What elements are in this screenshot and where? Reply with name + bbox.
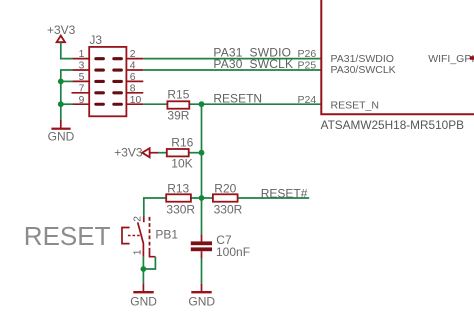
svg-text:+3V3: +3V3	[114, 146, 143, 160]
wire net PA31_SWDIO	[143, 58, 321, 60]
svg-text:R15: R15	[167, 88, 189, 102]
resistor R15	[167, 88, 189, 123]
ground GND (under C7)	[188, 284, 215, 308]
PB1 lower pin	[142, 251, 144, 257]
wire R13 row left	[144, 198, 166, 217]
svg-text:PB1: PB1	[155, 228, 178, 242]
PB1 arm	[138, 222, 144, 251]
wire net RESETN (J3 pin10 to IC)	[143, 103, 167, 105]
svg-text:P25: P25	[298, 60, 317, 72]
push button PB1	[122, 216, 178, 257]
PB1 top pin	[143, 216, 145, 222]
svg-text:RESET#: RESET#	[261, 187, 308, 201]
junction PB1 node	[141, 266, 147, 272]
svg-text:R20: R20	[214, 181, 236, 195]
wire C7 to GND	[201, 258, 203, 284]
PB1 bracket dashed link	[128, 235, 140, 237]
ground GND (under PB1)	[130, 284, 157, 309]
J3 pads	[94, 57, 123, 106]
wire R16 to bus	[189, 152, 202, 154]
svg-text:330R: 330R	[214, 202, 243, 216]
PB1 pin1 jog	[150, 250, 156, 256]
svg-text:100nF: 100nF	[216, 245, 250, 259]
svg-text:J3: J3	[89, 33, 102, 47]
wire J3 pin9 stub	[61, 103, 73, 105]
PB1 actuator dashed line	[149, 217, 151, 251]
connector J3	[72, 33, 144, 117]
svg-text:3: 3	[79, 61, 85, 72]
wire R13 to R20	[191, 197, 213, 199]
wire PB1 pin1 to junction	[143, 257, 155, 269]
wire net PA30_SWCLK	[143, 69, 321, 71]
svg-text:R16: R16	[171, 135, 193, 149]
ground GND (left)	[48, 120, 75, 144]
resistor R16	[167, 135, 194, 170]
resistor R20	[213, 181, 243, 216]
svg-text:9: 9	[79, 95, 85, 106]
J3 pin stubs right	[126, 59, 143, 105]
wire net RESET#	[238, 197, 310, 199]
wire PB1 lower to junction	[142, 256, 144, 269]
junction pin5	[58, 79, 64, 85]
svg-text:1: 1	[132, 249, 143, 255]
wire PB1 junction to GND	[142, 269, 144, 284]
wire J3 pin5 stub	[61, 80, 73, 82]
PB1 button bracket	[122, 228, 130, 244]
svg-text:RESET: RESET	[24, 221, 111, 251]
wire +3V3 to J3 pin1	[61, 43, 73, 59]
junction R13/R20 node	[199, 195, 205, 201]
svg-text:4: 4	[130, 61, 136, 72]
svg-text:RESETN: RESETN	[213, 92, 262, 106]
wire vertical main bus RESETN down to C7	[201, 104, 203, 235]
junction R16 node	[199, 150, 205, 156]
svg-text:5: 5	[79, 72, 85, 83]
svg-text:1: 1	[79, 49, 85, 60]
svg-text:PA30_SWCLK: PA30_SWCLK	[213, 57, 293, 71]
svg-text:WIFI_GPIO: WIFI_GPIO	[428, 53, 474, 65]
svg-text:P26: P26	[298, 48, 317, 60]
svg-text:7: 7	[79, 83, 85, 94]
J3 pin numbers	[79, 49, 142, 106]
svg-text:P24: P24	[298, 94, 317, 106]
resistor R13	[166, 181, 195, 216]
junction pin9	[58, 101, 64, 107]
capacitor C7	[191, 233, 250, 259]
power symbol +3V3 (middle, arrow left)	[114, 146, 158, 160]
svg-text:39R: 39R	[167, 108, 189, 122]
junction RESETN node	[199, 101, 205, 107]
svg-text:10: 10	[130, 95, 142, 106]
svg-text:330R: 330R	[166, 202, 195, 216]
svg-text:8: 8	[130, 83, 136, 94]
svg-text:R13: R13	[167, 181, 189, 195]
IC pin stub right edge	[470, 56, 474, 60]
J3 pin stubs left	[72, 59, 90, 105]
svg-text:ATSAMW25H18-MR510PB: ATSAMW25H18-MR510PB	[321, 118, 464, 132]
wire +3V3 to R16	[158, 152, 167, 154]
svg-text:+3V3: +3V3	[47, 23, 76, 37]
op-amp U1 ATSAMW25 module box	[321, 0, 474, 132]
wire left vertical bus pin3 to GND	[61, 70, 73, 120]
svg-text:10K: 10K	[171, 156, 192, 170]
svg-text:6: 6	[130, 72, 136, 83]
svg-text:RESET_N: RESET_N	[331, 99, 379, 111]
svg-text:GND: GND	[48, 130, 75, 144]
svg-text:GND: GND	[188, 294, 215, 308]
svg-text:PA30/SWCLK: PA30/SWCLK	[331, 64, 396, 76]
power symbol +3V3 (top)	[47, 23, 76, 42]
svg-text:2: 2	[132, 216, 143, 222]
svg-text:2: 2	[130, 49, 136, 60]
svg-text:GND: GND	[130, 294, 157, 308]
